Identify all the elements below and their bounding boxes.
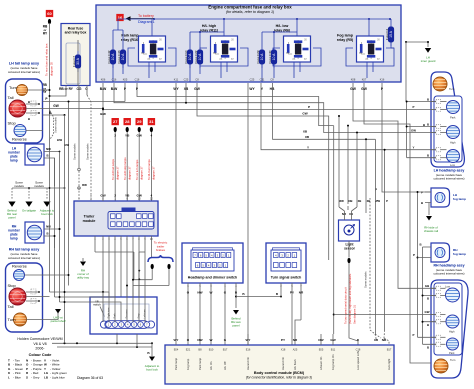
wire P park feed to LH headlamp <box>124 83 126 102</box>
wire fuse feeds <box>113 19 154 46</box>
svg-text:K16: K16 <box>380 77 385 81</box>
wire P to RH fog <box>417 192 419 337</box>
svg-text:Fuse F43: Fuse F43 <box>117 50 121 63</box>
wire BW x114 to staircase <box>114 83 436 133</box>
wire P fog feed <box>382 83 431 192</box>
svg-text:P: P <box>413 105 415 109</box>
svg-text:Holden Commodore VE/WM: Holden Commodore VE/WM <box>17 337 62 341</box>
svg-text:H/L flash: H/L flash <box>293 359 297 370</box>
wires into trailer connector top <box>103 252 145 322</box>
svg-text:10 A: 10 A <box>188 53 192 61</box>
wire some models dashed to trailer <box>78 171 80 201</box>
trailer connector <box>90 297 157 334</box>
svg-text:Turn signal switch: Turn signal switch <box>271 276 301 280</box>
svg-text:29: 29 <box>137 119 142 124</box>
svg-text:B17: B17 <box>387 348 392 352</box>
svg-text:2006-: 2006- <box>35 347 45 351</box>
svg-text:Some models: Some models <box>73 143 77 160</box>
wire P to RH park <box>418 258 437 338</box>
wire x57 number plates <box>55 102 69 303</box>
body control module BCM <box>165 345 394 384</box>
wires headlamp switch to BCM <box>188 283 236 345</box>
svg-text:Park lamp: Park lamp <box>174 357 178 370</box>
svg-text:B: B <box>427 323 429 327</box>
svg-text:sensor: sensor <box>344 247 356 251</box>
lamp RH park <box>447 338 459 350</box>
green label utility tray <box>82 258 84 261</box>
wire x186 to LH low <box>185 83 187 103</box>
wire OG down <box>78 85 80 145</box>
wire x262 to LH high GW <box>261 83 436 150</box>
svg-text:coloured internal wires): coloured internal wires) <box>433 177 464 181</box>
lamp LH low <box>447 150 460 163</box>
svg-text:NW: NW <box>46 225 51 229</box>
svg-text:To RH turn lamps: To RH turn lamps <box>147 159 151 180</box>
svg-text:NR: NR <box>299 291 304 295</box>
wire RB/RY vertical <box>49 23 51 189</box>
svg-text:parcel shelf: parcel shelf <box>51 319 66 323</box>
svg-text:4: 4 <box>151 134 153 138</box>
svg-text:B: B <box>427 97 429 101</box>
svg-text:RH tail lamp assy: RH tail lamp assy <box>9 248 40 252</box>
svg-text:Tail: Tail <box>8 304 14 309</box>
svg-text:GW: GW <box>194 87 201 91</box>
lamp LH high <box>447 126 460 139</box>
node refs 27 28 29 31 <box>112 118 119 125</box>
rear fuse and relay box <box>61 24 90 86</box>
lamp RH tail/stop <box>9 288 26 305</box>
svg-text:P: P <box>413 333 415 337</box>
RH chassis arrow <box>428 203 430 216</box>
svg-text:10 A: 10 A <box>260 53 264 61</box>
svg-text:fog lamp: fog lamp <box>453 197 466 201</box>
svg-text:utility tray: utility tray <box>77 276 90 280</box>
svg-text:coloured internal wires): coloured internal wires) <box>8 256 40 260</box>
horizontal buses to trailer connector <box>50 292 110 322</box>
svg-text:B11: B11 <box>331 348 336 352</box>
svg-text:H/L Off: H/L Off <box>223 361 227 370</box>
lamp RH low <box>446 288 460 302</box>
svg-text:L/beam On: L/beam On <box>319 356 323 370</box>
fuse F4 <box>385 23 394 46</box>
svg-text:Headlamp and dimmer switch: Headlamp and dimmer switch <box>188 276 237 280</box>
svg-text:WR: WR <box>339 199 344 203</box>
wire LH inner guard feed <box>405 42 407 102</box>
trailer module <box>74 201 158 236</box>
svg-text:C25: C25 <box>250 77 255 81</box>
fuse F22 <box>194 46 203 68</box>
wire RH low feed <box>353 83 436 288</box>
svg-text:GW: GW <box>137 134 142 138</box>
RH tail wires <box>43 274 69 276</box>
svg-text:A25: A25 <box>293 348 298 352</box>
lamp LH headlamp turn <box>433 77 447 91</box>
lamp RH turn <box>14 313 27 326</box>
svg-text:Hazard On: Hazard On <box>281 356 285 370</box>
svg-text:GW: GW <box>411 128 416 132</box>
wire RB/RY join rear box <box>50 85 67 96</box>
svg-text:RW: RW <box>82 183 87 187</box>
wires middle right drop group <box>339 116 357 204</box>
svg-text:panel: panel <box>232 324 239 328</box>
svg-text:To LH turn lamps: To LH turn lamps <box>135 159 139 180</box>
svg-text:Fuse F42: Fuse F42 <box>107 50 111 63</box>
svg-text:10 A: 10 A <box>121 53 125 61</box>
svg-text:Engine compartment fuse and re: Engine compartment fuse and relay box <box>208 5 292 10</box>
ground bus LH headlamp <box>407 102 436 158</box>
svg-text:10 A: 10 A <box>272 53 276 61</box>
svg-text:31: 31 <box>149 119 154 124</box>
svg-text:B: B <box>427 297 429 301</box>
svg-text:B: B <box>28 117 30 121</box>
svg-text:boot lock: boot lock <box>146 368 158 372</box>
svg-text:RB or RY: RB or RY <box>59 87 74 91</box>
svg-text:relay (R16): relay (R16) <box>121 38 140 42</box>
svg-text:Stop: Stop <box>8 283 17 288</box>
svg-text:B: B <box>427 154 429 158</box>
svg-text:B10: B10 <box>209 348 214 352</box>
fuse F29 <box>256 46 265 68</box>
wire some models dashed left <box>50 110 54 140</box>
svg-text:XB: XB <box>367 199 371 203</box>
svg-text:models: models <box>14 184 24 188</box>
svg-text:XB: XB <box>303 129 308 133</box>
svg-text:B/W: B/W <box>57 138 63 142</box>
svg-text:Y: Y <box>413 146 415 150</box>
wire x272 staircase to BCM GW <box>273 83 376 139</box>
svg-text:Fog lamp On: Fog lamp On <box>331 354 335 370</box>
svg-text:(SRV28 36), high beam and fog: (SRV28 36), high beam and fog indicators… <box>348 273 352 324</box>
svg-text:brakes: brakes <box>156 248 166 252</box>
svg-text:Some models: Some models <box>54 116 58 133</box>
svg-text:(for connector identification,: (for connector identification, refer to … <box>246 376 312 380</box>
svg-text:2: 2 <box>114 134 116 138</box>
svg-text:B: B <box>46 154 48 158</box>
wire GW column x103 <box>102 83 104 201</box>
svg-text:P: P <box>413 253 415 257</box>
svg-text:B/W: B/W <box>111 87 118 91</box>
svg-text:High: High <box>449 330 455 334</box>
svg-text:C18: C18 <box>356 348 361 352</box>
lamp LH turn <box>17 85 28 96</box>
turn signal switch <box>266 243 306 283</box>
svg-text:Tail: Tail <box>8 95 14 100</box>
svg-text:Trailer: Trailer <box>84 215 95 219</box>
svg-text:K07: K07 <box>362 77 367 81</box>
svg-text:coloured internal wires): coloured internal wires) <box>433 272 464 276</box>
wires into BCM top <box>176 334 333 345</box>
svg-text:GW: GW <box>53 104 59 108</box>
wire LH tail down <box>43 89 50 91</box>
svg-text:Fuse F22: Fuse F22 <box>194 50 198 63</box>
svg-text:Reverse: Reverse <box>12 137 28 142</box>
engine compartment fuse and relay box <box>96 5 401 83</box>
wire RH high feed <box>364 83 431 363</box>
svg-text:boot lock: boot lock <box>41 212 53 216</box>
wire RH number plate <box>44 229 60 248</box>
svg-text:C8: C8 <box>270 77 274 81</box>
svg-text:- Blue: - Blue <box>13 375 21 379</box>
wire x64 ground <box>64 115 66 343</box>
colour code table <box>8 359 67 380</box>
svg-text:E04: E04 <box>174 348 179 352</box>
svg-text:Turn: Turn <box>449 87 455 91</box>
svg-text:diagram 37: diagram 37 <box>152 166 156 180</box>
svg-text:C25: C25 <box>184 77 189 81</box>
wire col137 staircase <box>137 83 334 126</box>
trailer module connector <box>108 208 154 230</box>
svg-text:B: B <box>421 201 423 205</box>
svg-text:Colour Code: Colour Code <box>29 353 52 357</box>
svg-text:H/L On: H/L On <box>209 361 213 370</box>
RH fog lamp <box>431 243 450 262</box>
RH tail lamp pins <box>25 275 43 320</box>
svg-text:panel: panel <box>8 216 15 220</box>
svg-text:On tailgate: On tailgate <box>22 209 36 213</box>
wire P park feed LH tail <box>43 101 126 103</box>
svg-text:LH tail lamp assy: LH tail lamp assy <box>9 62 40 66</box>
svg-text:GW: GW <box>302 112 307 116</box>
svg-text:switch: switch <box>93 303 101 307</box>
svg-text:To rear fuse and relay box: To rear fuse and relay box <box>45 43 49 76</box>
svg-text:To LED tail lamps: To LED tail lamps <box>111 158 115 180</box>
svg-text:P: P <box>386 199 388 203</box>
svg-text:W: W <box>210 291 213 295</box>
svg-text:To battery: To battery <box>138 14 154 18</box>
svg-text:Low speed LAN: Low speed LAN <box>356 351 360 370</box>
wire WY x176 to BCM <box>175 83 177 334</box>
svg-text:XB: XB <box>349 212 353 216</box>
svg-text:Turn: Turn <box>9 85 17 90</box>
svg-text:and relay box: and relay box <box>65 31 87 35</box>
svg-text:Fuse F10: Fuse F10 <box>184 50 188 63</box>
svg-text:L: L <box>8 375 10 379</box>
svg-text:To low speed serial data circu: To low speed serial data circuit <box>344 287 348 324</box>
node ref 60 to battery <box>46 10 53 17</box>
wire GW to RH headlamp <box>334 314 436 316</box>
svg-text:lamp: lamp <box>10 237 17 241</box>
svg-text:Auto light: Auto light <box>387 359 391 370</box>
wires to light sensor <box>339 204 345 216</box>
svg-text:B: B <box>28 100 30 104</box>
svg-text:Fog lamp: Fog lamp <box>186 358 190 370</box>
wires turn signal switch to BCM <box>281 283 301 345</box>
svg-text:E05: E05 <box>319 348 324 352</box>
svg-text:Reverse: Reverse <box>12 264 28 269</box>
svg-text:Low: Low <box>445 285 450 289</box>
fuse F30 <box>268 46 277 68</box>
svg-text:(for details, refer to diagram: (for details, refer to diagram 1) <box>226 10 274 14</box>
lamp RH turn <box>434 359 448 373</box>
svg-text:High: High <box>450 141 456 145</box>
wire x252 to LH high B <box>247 83 249 345</box>
svg-text:Body control module (BCM): Body control module (BCM) <box>254 371 305 375</box>
svg-text:15 A: 15 A <box>389 30 393 38</box>
svg-text:Diagram 36 of 63: Diagram 36 of 63 <box>77 376 103 380</box>
svg-text:Some models: Some models <box>364 271 368 288</box>
svg-text:K08: K08 <box>351 77 356 81</box>
svg-text:B: B <box>427 122 429 126</box>
svg-text:diagram 35: diagram 35 <box>50 62 54 76</box>
svg-text:C16: C16 <box>135 77 140 81</box>
svg-text:K11: K11 <box>174 77 179 81</box>
svg-text:GW: GW <box>425 310 430 314</box>
svg-text:Fuse F7: Fuse F7 <box>72 56 76 68</box>
svg-text:Park: Park <box>449 351 455 355</box>
svg-text:relay (R5): relay (R5) <box>337 38 354 42</box>
LH tail lamp pins <box>26 90 43 131</box>
wire O dashed <box>86 85 88 95</box>
headlamp and dimmer switch <box>182 243 243 283</box>
svg-text:P: P <box>308 105 310 109</box>
svg-text:60: 60 <box>47 11 52 16</box>
svg-text:K05: K05 <box>123 77 128 81</box>
svg-text:10 A: 10 A <box>198 53 202 61</box>
svg-text:Some models: Some models <box>86 143 90 160</box>
LH fog lamp <box>431 188 450 207</box>
svg-text:Hazard On: Hazard On <box>246 356 250 370</box>
wire LH number plate <box>44 152 60 187</box>
svg-text:28: 28 <box>125 119 130 124</box>
svg-text:P: P <box>421 191 423 195</box>
svg-text:E21: E21 <box>186 348 191 352</box>
svg-text:C16: C16 <box>112 77 117 81</box>
svg-text:Park: Park <box>450 116 456 120</box>
LH headlamp assy <box>431 72 464 167</box>
svg-text:YB: YB <box>125 134 130 138</box>
ground bus RH headlamp <box>423 247 437 344</box>
svg-text:W: W <box>210 338 213 342</box>
svg-text:B8: B8 <box>198 348 202 352</box>
svg-text:XB: XB <box>305 135 310 139</box>
svg-text:chassis rail: chassis rail <box>424 229 439 233</box>
svg-text:Fuse F4: Fuse F4 <box>385 29 389 41</box>
svg-text:lamp: lamp <box>10 159 17 163</box>
node battery feed ref 16 <box>116 14 123 21</box>
wire battery bus <box>154 18 390 20</box>
svg-text:NW: NW <box>197 291 202 295</box>
svg-text:Fuse F29: Fuse F29 <box>256 50 260 63</box>
svg-text:- Grey: - Grey <box>31 375 40 379</box>
wire colour labels under engine box <box>100 87 384 91</box>
wire x47.6 lower <box>49 189 51 292</box>
wire B ground LH tail <box>43 114 65 116</box>
wire trailer connector ground buses <box>52 343 152 347</box>
fuse F43 <box>117 46 126 68</box>
svg-text:diagram 37: diagram 37 <box>140 166 144 180</box>
svg-text:NW: NW <box>197 338 202 342</box>
svg-text:B: B <box>427 345 429 349</box>
svg-text:Stop: Stop <box>8 121 17 126</box>
fuse F42 <box>107 46 116 68</box>
svg-text:WY: WY <box>249 87 255 91</box>
light sensor <box>339 220 360 241</box>
svg-text:S: S <box>26 375 28 379</box>
svg-text:C31: C31 <box>260 77 265 81</box>
svg-text:XB: XB <box>358 199 362 203</box>
svg-text:Turn: Turn <box>8 317 16 322</box>
svg-text:NW: NW <box>46 147 51 151</box>
svg-text:10 A: 10 A <box>111 53 115 61</box>
fuse F10 <box>184 46 193 68</box>
svg-text:30 A: 30 A <box>76 57 80 65</box>
svg-text:models: models <box>34 184 44 188</box>
wires trailer module to connector <box>95 236 151 322</box>
svg-text:module: module <box>83 219 96 223</box>
svg-text:C8: C8 <box>195 77 199 81</box>
svg-text:B: B <box>46 232 48 236</box>
fuse F7 <box>72 51 81 72</box>
svg-text:GB: GB <box>425 284 429 288</box>
svg-text:V6 & V8: V6 & V8 <box>33 342 46 346</box>
svg-text:fog lamp: fog lamp <box>453 252 466 256</box>
svg-text:B: B <box>419 242 421 246</box>
wire x197 staircase <box>197 83 329 260</box>
lamp LH tail/stop <box>9 100 26 117</box>
wire trailer brake bends <box>139 251 145 253</box>
RH headlamp pins <box>431 286 446 346</box>
svg-text:- Light blue: - Light blue <box>50 375 65 379</box>
LH inner guard arrow <box>406 42 428 47</box>
svg-text:NR: NR <box>293 338 298 342</box>
lamp RH high <box>446 315 459 328</box>
svg-text:coloured internal wires): coloured internal wires) <box>8 70 40 74</box>
wire GW LH tail <box>43 107 104 109</box>
LH headlamp pins <box>431 99 447 159</box>
svg-text:Park lamp: Park lamp <box>198 357 202 370</box>
wire LH low Y pin <box>185 152 187 154</box>
svg-text:Low: Low <box>450 163 455 167</box>
svg-text:B17: B17 <box>223 348 228 352</box>
svg-text:Fuse F30: Fuse F30 <box>268 50 272 63</box>
lamp LH park <box>447 101 460 114</box>
engine box pin labels <box>101 77 385 81</box>
svg-text:To LED stop lamps: To LED stop lamps <box>123 157 127 180</box>
svg-text:K06: K06 <box>101 77 106 81</box>
svg-text:GW: GW <box>361 87 368 91</box>
svg-text:diagram 37: diagram 37 <box>116 166 120 180</box>
lamp RH reverse <box>14 270 25 281</box>
svg-text:B/W: B/W <box>100 87 107 91</box>
svg-text:inner guard: inner guard <box>421 59 436 63</box>
svg-text:GW: GW <box>350 87 357 91</box>
svg-text:27: 27 <box>113 119 118 124</box>
svg-text:B/W: B/W <box>100 112 106 116</box>
svg-text:E16: E16 <box>246 348 251 352</box>
svg-text:Turn: Turn <box>450 358 456 362</box>
svg-text:NB: NB <box>349 199 353 203</box>
svg-text:X18: X18 <box>281 348 286 352</box>
svg-text:diagram 37: diagram 37 <box>128 166 132 180</box>
